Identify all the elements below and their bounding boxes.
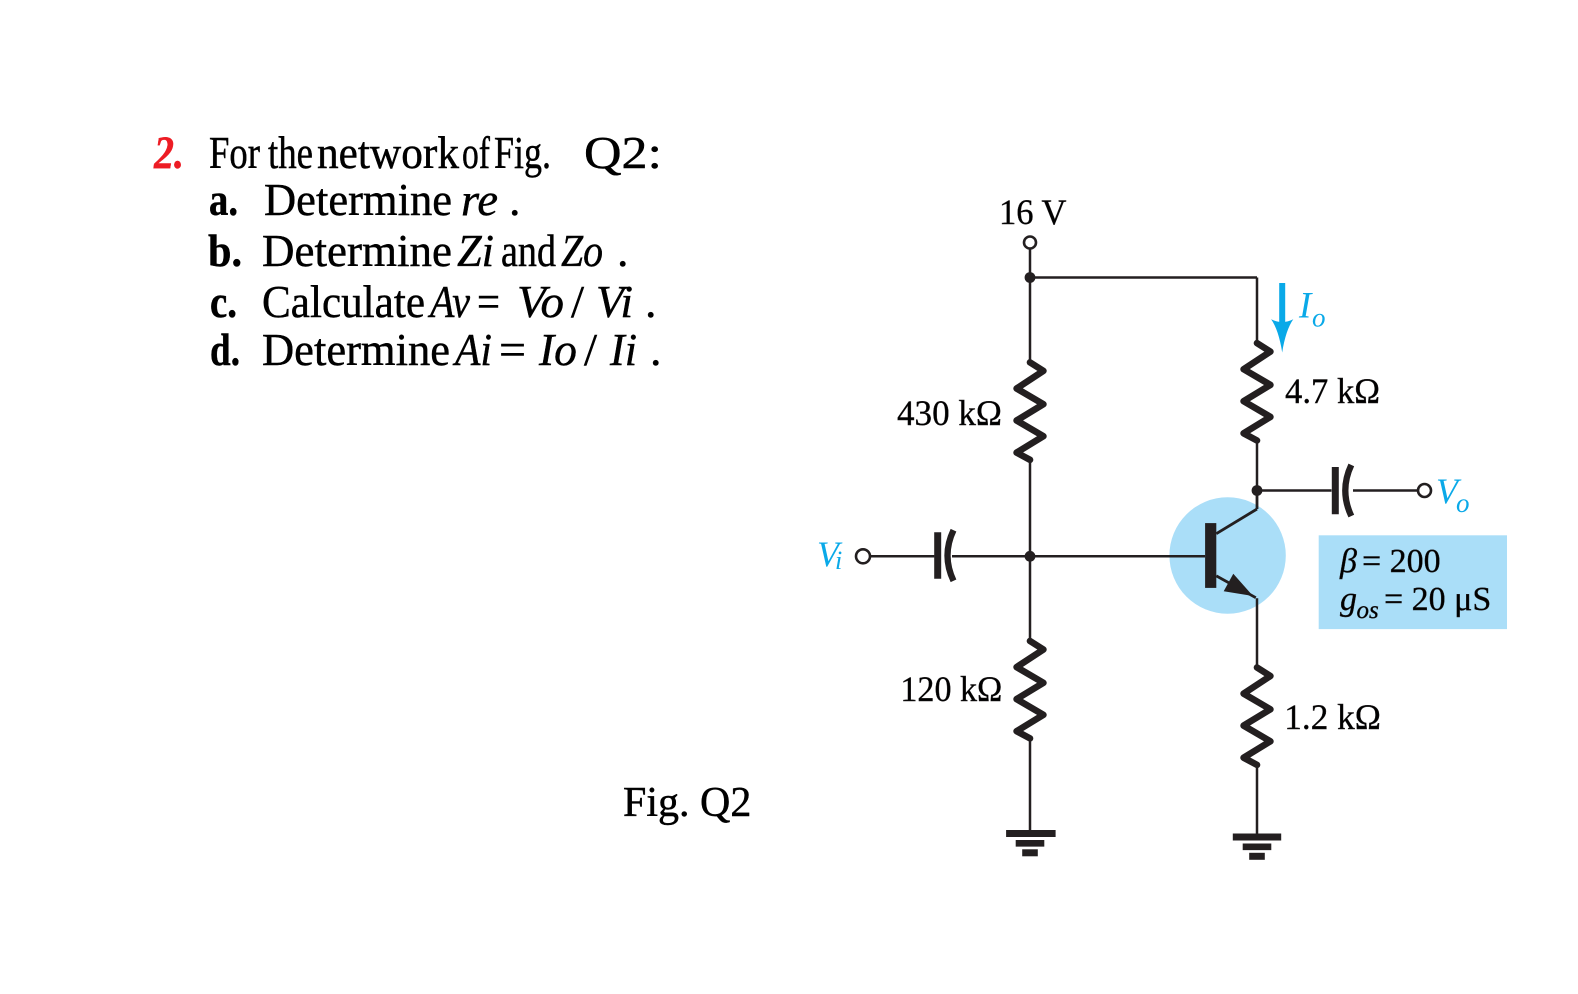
svg-text:os: os (1357, 597, 1379, 624)
svg-text:b.DetermineZiandZo.: b.DetermineZiandZo. (208, 225, 629, 276)
svg-text:= 20 μS: = 20 μS (1384, 581, 1491, 618)
svg-text:I: I (1298, 286, 1313, 327)
svg-text:o: o (1456, 488, 1470, 518)
svg-text:120 kΩ: 120 kΩ (900, 669, 1002, 709)
svg-text:Fig. Q2: Fig. Q2 (623, 780, 751, 826)
svg-text:4.7 kΩ: 4.7 kΩ (1285, 371, 1380, 411)
svg-text:a.Determinere.: a.Determinere. (209, 174, 521, 225)
svg-text:430 kΩ: 430 kΩ (897, 393, 1002, 433)
svg-text:1.2 kΩ: 1.2 kΩ (1284, 697, 1381, 737)
svg-text:d.DetermineAi=Io/Ii.: d.DetermineAi=Io/Ii. (210, 324, 662, 375)
svg-text:16 V: 16 V (999, 192, 1067, 232)
svg-text:2.ForthenetworkofFig.Q2:: 2.ForthenetworkofFig.Q2: (153, 127, 662, 179)
svg-text:g: g (1340, 581, 1357, 618)
svg-text:i: i (835, 546, 842, 575)
svg-text:c.CalculateAv=Vo/Vi.: c.CalculateAv=Vo/Vi. (210, 276, 657, 327)
svg-text:β= 200: β= 200 (1339, 543, 1441, 580)
svg-text:o: o (1312, 303, 1326, 333)
